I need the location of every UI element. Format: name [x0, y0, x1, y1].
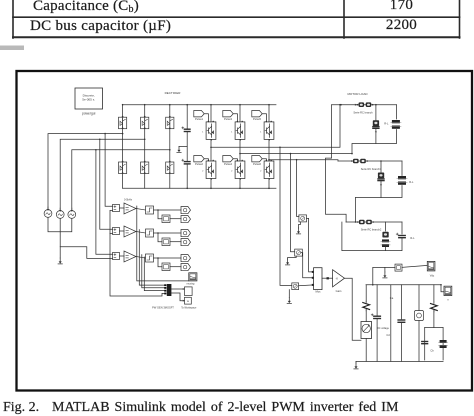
- table bottom border line: [13, 36, 460, 38]
- wire branch diode: [418, 285, 420, 311]
- wire pwm tap3: [142, 255, 165, 288]
- wire load C right lower: [342, 222, 402, 251]
- node cap bottom: [186, 188, 188, 190]
- node sine tap b: [99, 139, 101, 141]
- wire muxbar to lower: [171, 293, 184, 301]
- wire phase C rail: [269, 160, 338, 161]
- wire pulse6 to gate: [262, 159, 266, 161]
- node branch 1: [157, 209, 159, 211]
- svg-text:n: n: [447, 299, 449, 302]
- from tag Pulse3: [223, 111, 233, 117]
- wire inverter leg 1 mid: [210, 139, 212, 161]
- powergui block: [75, 88, 103, 109]
- svg-text:1: 1: [231, 131, 233, 133]
- battery loop: [425, 327, 443, 329]
- goto tag G1: [181, 207, 191, 214]
- wire relay to goto 2: [154, 232, 182, 234]
- comparator T2: [124, 226, 136, 237]
- svg-text:Gain: Gain: [336, 289, 342, 293]
- svg-text:MOTOR LOAD: MOTOR LOAD: [347, 92, 368, 96]
- wire RC branch B lead: [380, 161, 382, 173]
- wire not to goto 3: [170, 266, 181, 268]
- from tag Pulse5: [252, 111, 262, 117]
- capacitor Cdc1: [184, 128, 190, 130]
- wire ground stub: [355, 361, 357, 363]
- svg-text:1: 1: [202, 131, 204, 133]
- mux out port: [327, 277, 329, 279]
- node vdc tap: [372, 284, 374, 286]
- resistor Rdc: [363, 303, 370, 310]
- node branch 3: [157, 257, 159, 259]
- wire star link: [355, 198, 357, 223]
- wire meas tap 1: [280, 147, 292, 285]
- svg-text:Serie RC branch: Serie RC branch: [353, 111, 373, 115]
- wire inverter leg 2 top: [239, 105, 241, 122]
- inductor LB: [398, 176, 406, 179]
- node rect leg 2 top: [144, 104, 146, 106]
- wire source b stub: [59, 218, 61, 231]
- wire vdc gnd stub: [384, 267, 386, 272]
- wire load phase C line: [346, 221, 402, 223]
- svg-text:Cd: Cd: [386, 333, 390, 337]
- svg-text:Pulse3: Pulse3: [224, 117, 232, 121]
- wire pwm tap2: [139, 230, 164, 286]
- wire comparator out 3: [136, 257, 146, 259]
- current measurement IC: [359, 220, 365, 225]
- wire inverter leg 3 top: [268, 105, 270, 122]
- wire branch cd lower: [376, 319, 378, 362]
- wire carrier tap 3: [110, 257, 113, 259]
- wire load B right loop: [401, 161, 403, 176]
- wire phase A rail: [211, 105, 340, 148]
- scope block N: [444, 286, 452, 295]
- wire load phase B line: [338, 160, 402, 162]
- goto tag G5: [181, 255, 191, 262]
- node phase b junction: [144, 139, 146, 141]
- wire bottom DC rail: [123, 187, 276, 189]
- wire mux to gain: [322, 277, 333, 279]
- ground source neutral: [59, 258, 61, 261]
- wire relay to goto 3: [154, 257, 182, 259]
- RC branch C: [382, 232, 388, 238]
- wire inverter leg 3 bottom: [268, 179, 270, 189]
- goto tag G3: [181, 230, 191, 237]
- wire pulse1 to gate: [204, 114, 208, 122]
- wire RC branch A lead: [375, 105, 377, 121]
- resistor Rb: [431, 304, 438, 311]
- source Va: [44, 210, 52, 218]
- svg-text:Pulse4: Pulse4: [224, 162, 232, 166]
- wire RC branch C lead: [385, 222, 387, 231]
- wire rb lower: [433, 311, 435, 328]
- wire branch cd: [376, 285, 378, 315]
- wire cap mid lead: [186, 132, 188, 162]
- voltage measurement VM3: [292, 283, 299, 290]
- battery cell: [440, 340, 447, 343]
- node cap top: [186, 104, 188, 106]
- wire branch to not 3: [158, 258, 162, 267]
- RC branch A: [373, 120, 379, 126]
- node load A left: [340, 104, 342, 106]
- svg-text:Ca: Ca: [390, 296, 394, 300]
- node rect leg 3 top: [169, 104, 171, 106]
- vdc measurement block: [395, 264, 402, 271]
- svg-text:0-5kHz: 0-5kHz: [124, 198, 133, 201]
- wire vm2 out: [301, 253, 313, 278]
- wire sum to comparator 2: [120, 230, 125, 232]
- logic NOT N1: [162, 215, 170, 223]
- wire vm3 out: [299, 284, 314, 287]
- wire branch c2: [390, 285, 392, 362]
- ground VM2: [287, 259, 289, 262]
- wire sum to comparator 3: [120, 255, 125, 257]
- node phase a junction: [122, 133, 124, 135]
- wire neutral down: [59, 232, 61, 258]
- ground VM1: [298, 228, 300, 231]
- wire branch c3 lower: [400, 322, 402, 361]
- table left border: [12, 0, 14, 38]
- scope block Vdc: [427, 261, 435, 271]
- wire cap bottom lead: [186, 164, 188, 188]
- node load C star: [355, 221, 357, 223]
- wire branch rb: [433, 285, 435, 302]
- wire pulse3 to gate: [233, 114, 237, 122]
- svg-text:-K: -K: [336, 277, 339, 281]
- ground DC midpoint: [178, 147, 180, 150]
- ground VM3: [288, 298, 290, 301]
- wire load A right loop: [396, 105, 398, 119]
- wire phase B rail drop: [326, 105, 347, 222]
- wire pulse2 to gate: [204, 159, 208, 161]
- sum block S3: [113, 253, 120, 260]
- capacitor load C: [399, 235, 405, 237]
- wire gain out: [345, 278, 362, 340]
- svg-text:R-L: R-L: [409, 180, 414, 184]
- mux block: [314, 268, 322, 290]
- svg-text:R-L: R-L: [410, 236, 415, 240]
- source Vb: [56, 211, 64, 219]
- from tag Pulse6: [252, 156, 262, 162]
- node phase c junction: [169, 149, 171, 151]
- wire vm3 gnd: [288, 290, 290, 298]
- wire inverter leg 2 bottom: [239, 179, 241, 189]
- IGBT Q5: [264, 122, 274, 139]
- wire inverter leg 2 mid: [239, 139, 241, 161]
- diode D6: [166, 162, 174, 174]
- workspace block upper: [185, 287, 193, 296]
- from tag Pulse1: [194, 111, 204, 117]
- wire bottom rail: [356, 360, 443, 362]
- goto tag G4: [181, 239, 191, 246]
- wire muxbar to upper: [171, 288, 184, 290]
- RC branch B: [378, 173, 384, 179]
- diode block DB: [415, 311, 424, 321]
- wire rail to scopeN: [441, 285, 444, 292]
- diode D2: [119, 162, 127, 174]
- capacitor Cd: [374, 315, 381, 317]
- table row divider line: [13, 16, 460, 18]
- wire load phase A line: [332, 104, 397, 106]
- wire sine tap c: [96, 150, 113, 254]
- wire source bottom: [365, 339, 367, 362]
- relay block B1: [146, 206, 154, 214]
- wire load B right lower: [356, 186, 403, 198]
- table column divider: [343, 0, 345, 38]
- left margin scan smudge: [0, 46, 24, 51]
- current measurement IA: [359, 102, 365, 107]
- svg-text:Pulse1: Pulse1: [195, 117, 203, 121]
- wire rectifier leg 1 vertical: [122, 105, 124, 189]
- wire pulse4 to gate: [233, 159, 237, 161]
- wire inverter leg 3 mid: [268, 139, 270, 161]
- svg-text:R-L: R-L: [384, 121, 389, 125]
- node phase A tap: [279, 147, 281, 149]
- wire r1 to source: [365, 310, 367, 322]
- IGBT Q3: [235, 122, 245, 139]
- wire inverter leg 1 bottom: [210, 179, 212, 189]
- IGBT Q6: [264, 161, 274, 179]
- wire meas tap 3: [297, 160, 299, 217]
- workspace block lower: [185, 297, 192, 304]
- wire vdc meas feed: [373, 267, 395, 284]
- capacitor Cb: [422, 341, 428, 343]
- svg-text:Pulse2: Pulse2: [195, 162, 203, 166]
- current measurement IB: [353, 159, 359, 164]
- svg-text:muxing: muxing: [187, 283, 195, 286]
- controlled voltage source: [361, 322, 372, 339]
- IGBT Q2: [206, 161, 216, 179]
- wire vm1 gnd: [299, 222, 301, 228]
- wire phase B rail: [240, 153, 352, 155]
- svg-text:powergui: powergui: [82, 112, 96, 116]
- table right border: [459, 0, 461, 38]
- svg-text:2: 2: [260, 170, 262, 172]
- wire RC branch B lower: [380, 181, 382, 198]
- svg-text:Cb: Cb: [430, 348, 434, 352]
- wire pwm tap4: [144, 257, 164, 291]
- wire relay to goto 1: [154, 209, 182, 211]
- wire not to goto 2: [170, 241, 181, 243]
- wire phase b input: [60, 139, 145, 210]
- wire phase a input: [48, 134, 123, 210]
- table row 2 value: 2200: [343, 17, 460, 34]
- svg-text:PW GEN 3MOSFT: PW GEN 3MOSFT: [152, 306, 174, 310]
- scope block Scope1: [189, 273, 197, 281]
- wire inverter leg 1 top: [210, 105, 212, 122]
- capacitor Ca2: [398, 319, 405, 321]
- IGBT Q1: [206, 122, 216, 139]
- wire dc top rail: [366, 284, 441, 286]
- svg-text:To Workspace: To Workspace: [181, 306, 197, 309]
- from tag Pulse4: [223, 156, 233, 162]
- inductor LA: [392, 120, 400, 123]
- node sine tap a: [104, 133, 106, 135]
- wire rectifier leg 3 vertical: [169, 105, 171, 189]
- wire branch to not 1: [158, 210, 162, 219]
- wire load A right lower: [352, 130, 397, 154]
- ground vdc meas: [384, 272, 386, 275]
- wire sine tap a: [105, 134, 112, 207]
- wire carrier feed: [60, 210, 112, 258]
- node phase B tap: [290, 153, 292, 155]
- diode D1: [119, 117, 127, 129]
- source Vc: [68, 211, 76, 219]
- wire sum to comparator 1: [120, 207, 125, 209]
- figure frame: [17, 71, 473, 391]
- svg-text:w: w: [187, 299, 190, 303]
- mux input ports: [312, 271, 314, 273]
- gain block: [333, 270, 345, 287]
- wire not to goto 1: [170, 218, 181, 220]
- logic NOT N3: [162, 263, 170, 271]
- wire comparator out 1: [136, 209, 146, 211]
- diode D5: [166, 117, 174, 129]
- svg-text:5e-005 s.: 5e-005 s.: [82, 98, 95, 102]
- wire top DC rail: [123, 104, 276, 106]
- wire carrier tap 2: [110, 232, 113, 234]
- from tag Pulse2: [194, 156, 204, 162]
- node branch 2: [157, 232, 159, 234]
- wire pulse5 to gate: [262, 114, 266, 122]
- svg-text:Pulse5: Pulse5: [253, 117, 261, 121]
- capacitor Cdc2: [184, 161, 190, 163]
- wire phase c input: [72, 150, 170, 211]
- diode D4: [141, 162, 149, 174]
- node phase C tap: [296, 159, 298, 161]
- mux bar ports: [164, 284, 166, 286]
- wire cap midpoint to ground: [179, 146, 187, 148]
- mux bar: [167, 284, 172, 296]
- table row 2 text: DC bus capacitor: [30, 18, 171, 35]
- relay block B3: [146, 254, 154, 262]
- svg-text:Serie RC branch2: Serie RC branch2: [361, 228, 382, 232]
- node rect leg 1 top: [122, 104, 124, 106]
- wire branch to not 2: [158, 233, 162, 242]
- table row 1 value: 170: [343, 0, 460, 14]
- sum block S1: [113, 205, 120, 212]
- voltage measurement VM1: [299, 215, 307, 222]
- logic NOT N2: [162, 238, 170, 246]
- sum block S2: [113, 228, 120, 235]
- goto tag G6: [181, 264, 191, 271]
- wire meas tap 2: [291, 154, 295, 252]
- relay block B2: [146, 229, 154, 237]
- voltage measurement VM2: [295, 249, 303, 256]
- svg-text:DC voltage: DC voltage: [377, 327, 389, 330]
- svg-text:1: 1: [260, 131, 262, 133]
- ground dc bus: [355, 363, 357, 366]
- svg-text:RECTIFIER: RECTIFIER: [165, 91, 182, 95]
- wire branch c3: [400, 285, 402, 319]
- figure caption (bottom, cut off): [3, 400, 39, 416]
- IGBT Q4: [235, 161, 245, 179]
- wire comparator out 2: [136, 232, 146, 234]
- diode D3: [141, 117, 149, 129]
- comparator T1: [124, 203, 136, 214]
- svg-text:Mux: Mux: [315, 290, 321, 294]
- goto tag G2: [181, 216, 191, 223]
- svg-text:Pulse6: Pulse6: [253, 162, 261, 166]
- comparator T3: [124, 251, 136, 262]
- wire cap top lead: [186, 105, 188, 130]
- svg-text:Vdc: Vdc: [430, 274, 435, 278]
- node scopeN tap: [440, 284, 442, 286]
- wire branch r1: [365, 285, 367, 302]
- table row 1 text: Capacitance (Cb): [33, 0, 139, 15]
- wire pwm tap1 to scope: [137, 206, 189, 281]
- wire vm1 out: [307, 218, 314, 272]
- svg-text:Serie RC branch1: Serie RC branch1: [361, 167, 382, 171]
- wire vm2 gnd: [288, 256, 297, 259]
- svg-text:2: 2: [231, 170, 233, 172]
- svg-text:2: 2: [202, 170, 204, 172]
- wire vdc to scope: [402, 265, 427, 267]
- wire branch diode lower: [418, 321, 420, 362]
- wire source commons: [48, 217, 72, 231]
- node sine tap c: [95, 149, 97, 151]
- wire carrier to mux: [110, 258, 164, 296]
- wire rectifier leg 2 vertical: [144, 105, 146, 189]
- wire sine tap b: [100, 139, 113, 229]
- wire RC branch C lower: [385, 246, 387, 251]
- wire load C right loop: [401, 222, 403, 234]
- wire RC branch A lower: [375, 128, 377, 143]
